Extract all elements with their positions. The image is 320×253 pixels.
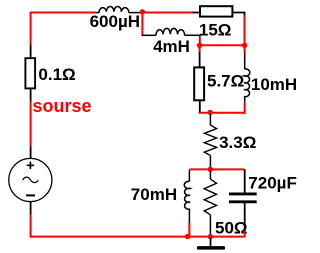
svg-text:50Ω: 50Ω: [215, 218, 248, 237]
node B1 junction dot: [197, 43, 202, 48]
svg-text:600µH: 600µH: [90, 12, 140, 31]
wire top-left horizontal red: [31, 12, 96, 14]
resistor R5 0.1 ohm box: [25, 58, 35, 88]
lead R5 bottom black: [30, 89, 32, 101]
svg-text:10mH: 10mH: [251, 75, 297, 94]
wire 4mH to node B1 red: [199, 37, 201, 45]
wire node B1 to B2 red: [200, 44, 245, 46]
lead R2 bottom black: [199, 100, 201, 113]
source V1 lead bottom black: [30, 202, 32, 215]
svg-text:15Ω: 15Ω: [199, 21, 232, 40]
resistor R1 15 ohm box: [200, 6, 232, 16]
wire node A down red: [141, 12, 143, 34]
source V1 sine wave: [23, 177, 38, 182]
wire B1 down red: [199, 45, 201, 52]
lead into R5 black: [30, 45, 32, 58]
inductor L4 70mH: [184, 170, 190, 223]
node A junction dot: [140, 9, 145, 14]
node E1 junction dot: [185, 234, 190, 239]
source V1 lead top black: [30, 146, 32, 158]
svg-text:4mH: 4mH: [153, 37, 190, 56]
lead R1 right black: [233, 13, 244, 16]
inductor L2 4mH: [142, 28, 200, 37]
lead into R1 black: [193, 12, 201, 14]
svg-text:sourse: sourse: [33, 96, 92, 116]
lead into R4 black: [209, 171, 211, 179]
svg-text:0.1Ω: 0.1Ω: [38, 65, 75, 84]
lead into R3 black: [209, 114, 211, 125]
capacitor C1 lead bottom black: [244, 203, 246, 231]
svg-text:720µF: 720µF: [248, 174, 297, 193]
wire left rail lower red: [30, 215, 32, 238]
wire left rail mid red: [30, 102, 32, 147]
source V1 plus sign: [27, 162, 34, 169]
wire bottom rail red: [31, 236, 246, 238]
capacitor C1 lead top black: [244, 169, 246, 192]
source V1 minus sign: [26, 194, 35, 196]
wire left rail upper red: [30, 12, 32, 46]
node C junction dot: [208, 110, 213, 115]
capacitor C1 720uF plates: [229, 192, 257, 195]
lead R4 bottom black: [209, 215, 211, 237]
wire 10mH down red: [244, 103, 246, 114]
lead into R2 black: [199, 52, 201, 67]
inductor L3 10mH: [244, 53, 250, 103]
svg-text:5.7Ω: 5.7Ω: [207, 72, 244, 91]
wire row3 red: [199, 112, 245, 114]
ground bar: [197, 246, 225, 250]
wire cap to bottom red: [244, 231, 246, 235]
wire B2 down red: [244, 45, 246, 53]
resistor R2 5.7 ohm box: [194, 67, 204, 100]
wire node A to 15 ohm red: [142, 12, 192, 14]
node E2 junction dot: [208, 234, 213, 239]
inductor L1 600uH: [96, 7, 140, 13]
ground lead black: [210, 238, 212, 247]
source V1 circle: [9, 158, 52, 201]
node B2 junction dot: [242, 43, 247, 48]
wire 70mH down red: [188, 223, 190, 237]
resistor R4 50 ohm zigzag: [204, 179, 216, 215]
svg-text:70mH: 70mH: [131, 185, 177, 204]
wire right col down red: [244, 16, 246, 46]
svg-text:3.3Ω: 3.3Ω: [219, 133, 256, 152]
wire row4 red: [189, 168, 244, 170]
lead R3 bottom black: [209, 156, 211, 169]
resistor R3 3.3 ohm zigzag: [204, 125, 216, 156]
node D junction dot: [208, 167, 213, 172]
